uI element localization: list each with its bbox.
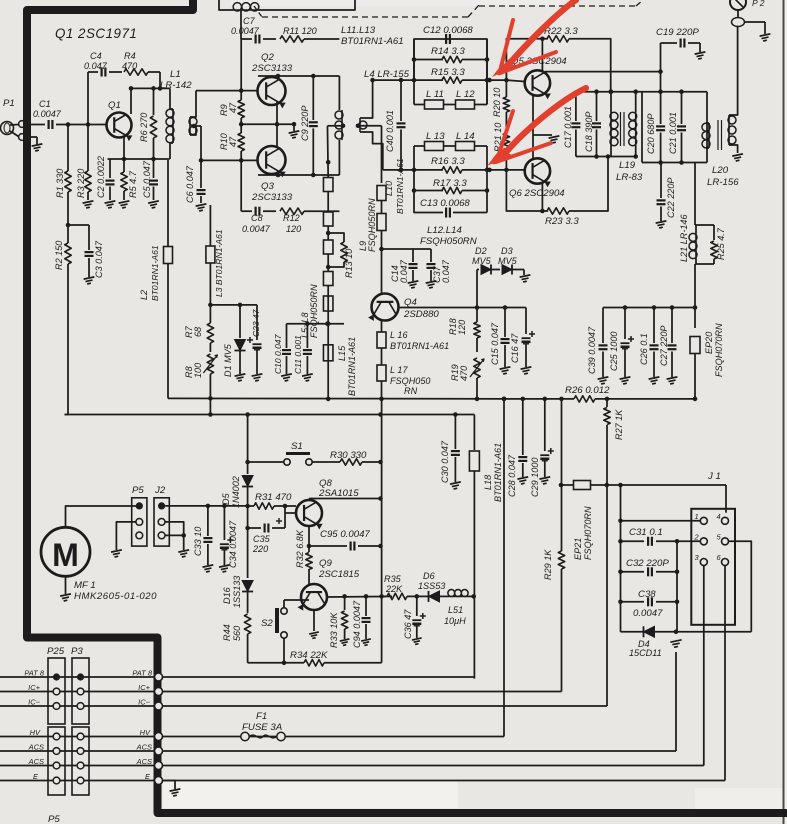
svg-text:LR-156: LR-156 [707, 177, 739, 188]
capacitor C32 label [626, 558, 669, 569]
svg-text:C40 0.001: C40 0.001 [385, 110, 395, 152]
connector P1 label [3, 98, 15, 109]
node bead col [326, 160, 331, 165]
resistor R4 [124, 69, 160, 89]
resistor R13 label [344, 249, 354, 278]
svg-text:C39 0.0047: C39 0.0047 [587, 326, 597, 374]
resistor R5 [119, 159, 130, 208]
transistor Q3 label [251, 181, 293, 203]
capacitor C10 label [273, 333, 283, 374]
svg-text:47: 47 [228, 102, 238, 113]
wire Q3 base to feedback [240, 160, 242, 211]
svg-text:PAT 8: PAT 8 [132, 669, 153, 678]
wire Q9 collector row [327, 594, 392, 599]
capacitor C38 [621, 597, 680, 606]
resistor R6 label [139, 113, 149, 142]
resistor R12 [280, 208, 339, 214]
svg-text:68: 68 [193, 327, 203, 337]
bus labels right set [132, 669, 153, 782]
diode D2 label [472, 246, 492, 266]
connector P3 label [71, 646, 83, 657]
wire L4 to lower filter [383, 168, 414, 173]
svg-text:R27 1K: R27 1K [614, 409, 624, 440]
svg-text:C9 220P: C9 220P [300, 106, 310, 141]
connector J2 pins [158, 502, 165, 539]
svg-text:2SA1015: 2SA1015 [318, 488, 359, 499]
resistor R20 label [492, 88, 502, 117]
wire D5 column top [247, 415, 249, 463]
node lower filter output [487, 168, 509, 173]
svg-text:Q9: Q9 [319, 558, 332, 569]
resistor R3 label [76, 169, 86, 198]
svg-text:R44: R44 [222, 624, 232, 641]
transistor Q9 label [318, 558, 360, 580]
svg-text:C8: C8 [251, 213, 263, 223]
switch S2 [277, 600, 309, 638]
svg-text:C11 0.001: C11 0.001 [293, 335, 303, 374]
inductor L15 label [337, 337, 357, 396]
resistor R19 trimmer [470, 358, 484, 399]
svg-text:C26 0.1: C26 0.1 [639, 333, 649, 365]
ground at E row [163, 781, 180, 796]
svg-text:D2: D2 [475, 246, 487, 256]
resistor R2 label [54, 241, 64, 270]
svg-text:C34 0.0047: C34 0.0047 [228, 520, 238, 568]
svg-text:C25 1000: C25 1000 [609, 332, 619, 371]
inductor L14 [414, 142, 487, 151]
wire D2 to collector row [476, 270, 478, 308]
resistor R35 [382, 593, 417, 599]
wire C10 C11 row [287, 321, 345, 326]
capacitor C19 [661, 39, 706, 92]
svg-text:2SC3133: 2SC3133 [251, 63, 293, 74]
inductor L16 label [390, 330, 449, 351]
label L12.L14 FSQH050RN [420, 225, 477, 247]
wire emitter bias row [108, 157, 170, 162]
node R1-R2 junction [66, 223, 71, 228]
wire C17 C18 bottom row [576, 154, 636, 159]
svg-text:FSQH070RN: FSQH070RN [714, 323, 724, 377]
resistor R23 label [545, 216, 579, 227]
svg-text:FSQH050: FSQH050 [390, 376, 430, 386]
capacitor C9 [309, 74, 318, 175]
wire Q4 collector row [399, 305, 527, 310]
svg-text:P5: P5 [132, 485, 144, 496]
svg-text:C94 0.0047: C94 0.0047 [352, 600, 362, 648]
svg-text:R32 6.8K: R32 6.8K [295, 529, 305, 568]
ferrite bead EP20 [690, 308, 700, 402]
capacitor C34 label [228, 520, 238, 568]
svg-text:R15 3.3: R15 3.3 [431, 67, 465, 78]
capacitor C26 [649, 308, 660, 384]
svg-text:L15: L15 [337, 345, 347, 361]
capacitor C23 [247, 305, 262, 381]
capacitor C34 [219, 506, 233, 572]
svg-text:L 13: L 13 [426, 131, 445, 142]
svg-text:C36 47: C36 47 [403, 609, 413, 639]
wire J1 pin4 feed [725, 485, 727, 513]
transistor Q3 [258, 146, 286, 177]
resistor R33 label [329, 612, 339, 648]
capacitor C5 [148, 159, 159, 208]
svg-text:FSQH050RN: FSQH050RN [420, 236, 477, 247]
wire C32 C38 right bus [676, 541, 678, 632]
svg-text:L11.L13: L11.L13 [341, 25, 376, 36]
transistor Q5 [525, 70, 551, 99]
capacitor C12 label [423, 25, 473, 36]
svg-text:0.047: 0.047 [399, 259, 409, 283]
svg-text:2SC3133: 2SC3133 [251, 192, 293, 203]
diode D6 label [418, 571, 445, 591]
wire Q9 emitter ground [309, 610, 319, 638]
svg-text:MV5: MV5 [498, 256, 518, 266]
resistor R35 label [384, 574, 403, 594]
transistor Q9 [297, 584, 327, 611]
capacitor C13 label [420, 198, 470, 209]
svg-text:L 17: L 17 [390, 365, 408, 375]
capacitor C20 label [646, 114, 656, 154]
resistor R30 [312, 459, 383, 465]
capacitor C11 [302, 321, 313, 381]
svg-text:R33 10K: R33 10K [329, 612, 339, 648]
inductor L51 label [444, 605, 466, 626]
capacitor C95 [307, 526, 383, 551]
wire bus ACS1 long [163, 652, 677, 751]
inductor L18 bead [469, 415, 479, 679]
inductor L9 label [358, 198, 377, 252]
svg-text:L1: L1 [170, 69, 181, 80]
inductor L2 label [139, 245, 160, 301]
svg-text:0.047: 0.047 [441, 259, 451, 283]
connector J1 body [691, 509, 735, 625]
inductor L6 bead [323, 192, 333, 227]
resistor R6 [150, 88, 156, 159]
svg-text:F1: F1 [256, 711, 267, 722]
svg-text:R14 3.3: R14 3.3 [431, 46, 465, 57]
resistor R32 label [295, 529, 305, 568]
resistor R7 [207, 305, 213, 352]
connector P25 body upper [48, 658, 65, 724]
capacitor C37 label [432, 259, 451, 283]
connector P1 jack [1, 121, 26, 141]
transistor Q4 [368, 294, 398, 321]
svg-text:C15 0.047: C15 0.047 [490, 322, 500, 365]
capacitor C31 [621, 537, 701, 546]
resistor R18 [474, 308, 480, 353]
wire Q5 base [506, 80, 524, 81]
diode D16 label [222, 576, 242, 608]
resistor R25 [711, 225, 717, 264]
wire pin3 down [703, 566, 705, 766]
capacitor C30 [450, 415, 461, 489]
svg-text:PAT 8: PAT 8 [24, 669, 45, 678]
diode D4 label [629, 639, 662, 658]
resistor R44 label [222, 624, 242, 641]
svg-text:ACS: ACS [28, 743, 44, 752]
capacitor C18 label [584, 112, 594, 152]
svg-text:P25: P25 [47, 646, 65, 657]
inductor L4 transformer [313, 76, 383, 175]
capacitor C2 [105, 159, 116, 208]
capacitor C6 [196, 160, 207, 211]
svg-text:R6 270: R6 270 [139, 113, 149, 142]
title Q1 2SC1971 [55, 26, 137, 41]
resistor R44 [244, 614, 250, 663]
svg-text:R1 330: R1 330 [55, 169, 65, 198]
resistor R21 label [493, 123, 503, 152]
capacitor C39 label [587, 326, 597, 374]
svg-text:R5 4.7: R5 4.7 [128, 170, 138, 198]
inductor L8 bead [323, 254, 333, 399]
capacitor C21 [677, 92, 686, 165]
inductor L2 bead [164, 160, 173, 398]
svg-text:D3: D3 [501, 246, 513, 256]
connector P5 label [132, 485, 144, 496]
transistor Q8 label [318, 478, 359, 499]
svg-text:J 1: J 1 [707, 471, 721, 482]
svg-text:L20: L20 [712, 165, 729, 176]
wire bus PAT8 long [163, 676, 474, 678]
diode D1 [235, 305, 246, 381]
wire J2 pin1 row [165, 504, 247, 509]
ferrite bead EP21 label [573, 506, 593, 560]
wire emitter join Q2 Q3 [241, 102, 299, 148]
svg-text:R2 150: R2 150 [54, 241, 64, 270]
capacitor C94 label [352, 600, 362, 648]
svg-text:FSQH050RN: FSQH050RN [309, 284, 319, 338]
resistor R27 [604, 399, 610, 706]
capacitor C16 [521, 308, 535, 374]
inductor L1 transformer [166, 88, 201, 160]
svg-text:C18 390P: C18 390P [584, 112, 594, 152]
svg-text:ACS: ACS [28, 757, 44, 766]
svg-text:L19: L19 [619, 160, 636, 171]
red arrow 2 head [487, 143, 551, 166]
resistor R14 label [431, 46, 465, 57]
resistor R17 label [433, 178, 467, 189]
inductor L20 transformer [702, 27, 743, 161]
wire Q1 feedback left [87, 72, 89, 125]
capacitor C10 [281, 324, 292, 381]
svg-text:0.047: 0.047 [84, 61, 108, 71]
resistor R29 label [543, 549, 553, 580]
inductor L21 label [679, 214, 689, 262]
resistor R7 label [184, 325, 203, 338]
capacitor C33 [203, 506, 214, 572]
motor MF1 [41, 506, 139, 601]
inductor L4 label [364, 69, 410, 80]
ground under R3 [83, 201, 94, 208]
svg-text:D5: D5 [221, 492, 231, 505]
resistor R2 [65, 225, 71, 415]
svg-text:L4 LR-155: L4 LR-155 [364, 69, 410, 80]
svg-text:BT01RN1-A61: BT01RN1-A61 [390, 341, 449, 351]
svg-text:RN: RN [404, 386, 418, 396]
capacitor C27 label [659, 326, 669, 366]
resistor R16 [412, 167, 490, 173]
wire Q1 collector row [129, 86, 170, 114]
resistor R27 label [614, 409, 624, 440]
wire Q3 collector [258, 171, 316, 177]
svg-text:P 2: P 2 [752, 0, 765, 8]
connector P25 P3 pins [53, 673, 84, 783]
switch S2 label [261, 618, 273, 629]
capacitor C8 [241, 207, 276, 216]
inductor L21 [689, 163, 714, 308]
svg-text:R31 470: R31 470 [255, 492, 292, 503]
wire Q6 base [506, 169, 524, 171]
switch S1 [245, 454, 312, 466]
inductor L11 label [426, 89, 444, 100]
inductor L3 bead [206, 205, 215, 305]
svg-text:J2: J2 [154, 485, 166, 496]
svg-text:HV: HV [140, 728, 151, 737]
wire Q8 emitter top [309, 496, 383, 501]
diode D3 label [498, 246, 518, 266]
inductor L17 [377, 348, 386, 399]
svg-text:4: 4 [717, 512, 721, 521]
capacitor C35 [245, 506, 285, 533]
motor MF1 label [74, 580, 157, 602]
connector P5 body [132, 498, 147, 546]
svg-text:BT01RN1-A61: BT01RN1-A61 [395, 158, 405, 214]
wire P5 pin2 ground [111, 522, 136, 557]
diode D5 label [221, 476, 241, 508]
svg-text:BT01RN1-A61: BT01RN1-A61 [341, 36, 404, 47]
svg-text:EP20: EP20 [704, 332, 714, 354]
svg-text:Q6 2SC2904: Q6 2SC2904 [509, 188, 565, 199]
wire pin5 loop [729, 541, 752, 632]
svg-text:C2 0.0022: C2 0.0022 [96, 156, 106, 198]
capacitor C21 label [668, 112, 678, 154]
transistor Q8 [296, 500, 323, 530]
svg-text:L18: L18 [483, 475, 493, 490]
capacitor C18 [592, 92, 601, 159]
capacitor C1 [49, 120, 53, 129]
svg-text:10μH: 10μH [444, 616, 466, 626]
wire Q5 emitter Q6 emitter join [533, 94, 559, 158]
inductor L1 label [160, 69, 192, 91]
resistor R15 label [431, 67, 465, 78]
capacitor C9 label [300, 106, 310, 141]
svg-text:0.0047: 0.0047 [33, 109, 62, 119]
svg-text:FSQH050RN: FSQH050RN [367, 198, 377, 252]
svg-text:M: M [52, 537, 79, 573]
resistor R18 label [448, 318, 467, 335]
svg-text:LR-83: LR-83 [616, 172, 643, 183]
resistor R8 label [184, 363, 203, 378]
svg-text:22K: 22K [385, 584, 403, 594]
svg-text:C7: C7 [243, 16, 256, 26]
inductor L20 label [707, 165, 739, 188]
svg-text:D1 MV5: D1 MV5 [223, 343, 233, 377]
red arrow 2 shaft [497, 88, 586, 160]
capacitor C23 label [251, 308, 261, 337]
filter box upper outline [414, 39, 487, 105]
resistor R26 label [565, 385, 610, 396]
wire Q2 base to feedback [240, 39, 242, 91]
svg-text:ACS: ACS [136, 743, 152, 752]
transistor Q1 [107, 113, 133, 142]
inductor L10 [377, 186, 386, 201]
resistor R11 [280, 36, 339, 42]
svg-text:R35: R35 [384, 574, 402, 584]
svg-text:C30 0.047: C30 0.047 [440, 440, 450, 483]
wire Q3 base [239, 158, 258, 163]
resistor R31 label [255, 492, 292, 503]
svg-text:C10 0.047: C10 0.047 [273, 333, 283, 374]
capacitor C30 label [440, 440, 450, 483]
resistor R9 [238, 91, 244, 125]
resistor R29 [558, 399, 564, 692]
resistor R5 label [128, 170, 138, 198]
inductor L12 label [456, 89, 475, 100]
capacitor C95 label [320, 529, 370, 540]
svg-text:C3 0.047: C3 0.047 [94, 240, 104, 278]
transistor Q2 [258, 77, 286, 108]
resistor R34 row [248, 638, 382, 666]
bus labels left set [24, 669, 45, 782]
wire Q5 collector rail [545, 69, 663, 74]
svg-text:560: 560 [232, 626, 242, 641]
resistor R30 label [330, 450, 367, 461]
connector J2 body [154, 498, 169, 546]
resistor R9 label [219, 102, 238, 116]
svg-text:1N4002: 1N4002 [231, 476, 241, 508]
capacitor C37 [426, 249, 437, 288]
capacitor C32 [621, 567, 680, 576]
svg-text:L 12: L 12 [456, 89, 475, 100]
svg-text:Q1: Q1 [108, 100, 121, 111]
capacitor C17 [571, 92, 580, 157]
resistor R33 [340, 596, 350, 645]
svg-text:C35: C35 [253, 534, 271, 544]
node upper filter output [487, 78, 509, 83]
capacitor C25 [620, 308, 634, 384]
wire bus IC- long [163, 705, 608, 707]
inductor bead extra [323, 296, 333, 311]
resistor R23 row [506, 157, 608, 215]
capacitor C40 label [385, 110, 395, 152]
svg-text:FUSE 3A: FUSE 3A [242, 722, 282, 733]
svg-text:L 11: L 11 [426, 89, 444, 100]
resistor R12 label [283, 213, 301, 234]
node C14 junction [379, 247, 384, 252]
wire audio col right [381, 399, 383, 663]
svg-text:P5: P5 [48, 814, 60, 824]
inductor L16 [377, 320, 386, 348]
resistor R13 [326, 231, 347, 270]
capacitor C15 label [490, 322, 500, 365]
wire Q2 base [239, 88, 258, 93]
transistor Q1 label [108, 100, 121, 111]
svg-text:IC−: IC− [138, 698, 150, 707]
wire bus ACS2 long [163, 765, 704, 767]
fuse F1 label [242, 711, 282, 733]
inductor L3 label [214, 229, 224, 297]
diode D4 [621, 626, 752, 647]
resistor R20 [503, 80, 509, 133]
wire pin6 down [724, 566, 726, 781]
resistor R17 [412, 187, 490, 193]
resistor R32 [306, 546, 312, 584]
capacitor C22 [656, 163, 667, 228]
wire bus lines left exits [0, 677, 53, 781]
capacitor C94 [361, 596, 371, 645]
filter box lower outline [414, 146, 487, 213]
resistor R21 [503, 133, 509, 170]
capacitor C29 [539, 399, 553, 484]
